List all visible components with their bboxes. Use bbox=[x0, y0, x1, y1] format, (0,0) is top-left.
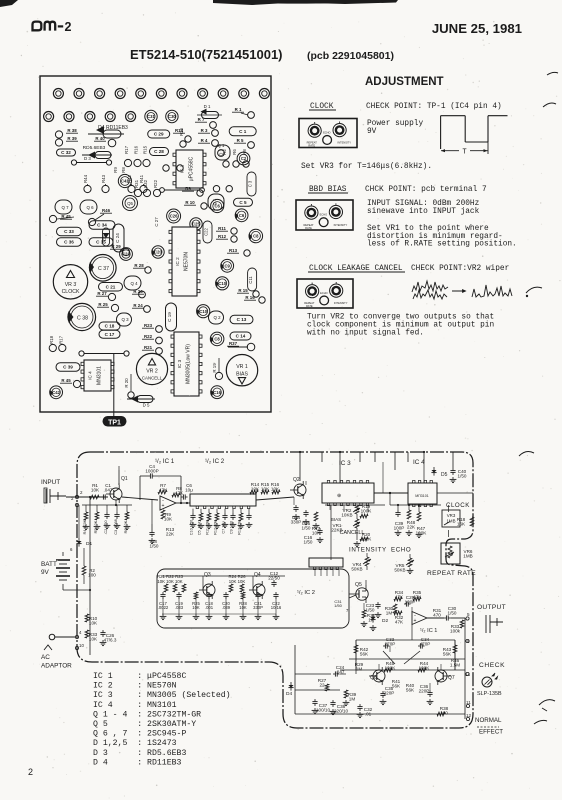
svg-text:sinewave into INPUT jack: sinewave into INPUT jack bbox=[367, 208, 480, 216]
svg-text:16K: 16K bbox=[457, 522, 466, 527]
svg-text:56K: 56K bbox=[443, 652, 452, 657]
svg-text:R 25: R 25 bbox=[98, 302, 108, 307]
capacitor C35 (pcb) bbox=[89, 238, 113, 247]
svg-text:less of R.RATE setting positio: less of R.RATE setting position. bbox=[367, 241, 517, 249]
wire opamp to output pin 5 bbox=[427, 617, 444, 619]
svg-text:RD5.6EB3: RD5.6EB3 bbox=[83, 145, 106, 151]
svg-text:R 24: R 24 bbox=[133, 303, 143, 308]
svg-text:CLOCK: CLOCK bbox=[62, 289, 80, 295]
capacitor C3 pill (pcb) bbox=[247, 172, 256, 196]
svg-text:C 38: C 38 bbox=[77, 316, 88, 322]
svg-text:R18: R18 bbox=[49, 335, 54, 344]
svg-text:+: + bbox=[414, 618, 417, 624]
capacitor C21 oval (pcb) bbox=[99, 282, 123, 291]
vertical feeds from top border bbox=[299, 452, 301, 462]
svg-text:C20: C20 bbox=[154, 250, 162, 255]
svg-text:C2: C2 bbox=[241, 156, 247, 161]
svg-text:IC 3: IC 3 bbox=[339, 460, 351, 467]
wire main path left bbox=[115, 500, 117, 505]
IC2 NE570N (pcb) bbox=[172, 227, 197, 296]
svg-text:IC 4: IC 4 bbox=[413, 459, 425, 466]
svg-text:Q 5 : 2SK30ATM-Y: Q 5 : 2SK30ATM-Y bbox=[93, 720, 196, 729]
resistor R4 string bbox=[85, 505, 87, 512]
svg-text:Q 6: Q 6 bbox=[86, 205, 94, 210]
svg-text:Q 4: Q 4 bbox=[130, 281, 138, 286]
svg-text:10KB: 10KB bbox=[341, 513, 352, 518]
schematic board outline bbox=[77, 452, 473, 728]
capacitor C9 bbox=[232, 509, 234, 513]
capacitor C22 pill (pcb) bbox=[203, 221, 212, 243]
wire input to Q1 bbox=[66, 496, 108, 498]
svg-text:JUNE 25, 1981: JUNE 25, 1981 bbox=[432, 21, 522, 36]
svg-text:C23: C23 bbox=[122, 252, 130, 257]
svg-text:R46: R46 bbox=[102, 208, 111, 213]
svg-text:CLOCK: CLOCK bbox=[446, 502, 470, 509]
PCB layout border bbox=[40, 76, 271, 412]
svg-text:REPEAT RATE: REPEAT RATE bbox=[427, 570, 476, 577]
svg-text:BATT: BATT bbox=[41, 561, 57, 568]
svg-text:C26: C26 bbox=[170, 214, 178, 219]
svg-text:ECHO: ECHO bbox=[320, 213, 328, 217]
svg-text:ADJUSTMENT: ADJUSTMENT bbox=[365, 76, 444, 88]
svg-text:D 3: D 3 bbox=[84, 156, 91, 161]
capacitor C30 (pcb) bbox=[166, 110, 178, 122]
svg-text:C10: C10 bbox=[218, 281, 226, 286]
capacitor C43 string bbox=[248, 509, 250, 513]
wires clock section bbox=[397, 505, 399, 510]
svg-text:1/50: 1/50 bbox=[366, 608, 375, 613]
IC3 MN3005 (pcb) bbox=[174, 332, 199, 396]
big capacitor C38 (pcb) bbox=[68, 303, 95, 330]
svg-text:Set VR1 to the point where: Set VR1 to the point where bbox=[367, 225, 489, 233]
svg-text:Q 6 , 7 : 2SC945-P: Q 6 , 7 : 2SC945-P bbox=[93, 730, 186, 739]
svg-text:R 3: R 3 bbox=[201, 128, 208, 133]
svg-text:10K: 10K bbox=[91, 488, 100, 493]
op-amp 1/2 IC1a bbox=[160, 496, 176, 510]
transistor Q7 (pcb) bbox=[55, 200, 72, 214]
svg-text:R37: R37 bbox=[229, 341, 238, 346]
svg-text:ECHO: ECHO bbox=[323, 131, 331, 135]
svg-text:R17: R17 bbox=[58, 335, 63, 344]
svg-text:INPUT SIGNAL: 0dBm 200Hz: INPUT SIGNAL: 0dBm 200Hz bbox=[367, 200, 480, 208]
resistor R38 (pcb) bbox=[55, 131, 62, 138]
svg-text:470P: 470P bbox=[420, 642, 431, 647]
svg-text:C 29: C 29 bbox=[154, 132, 164, 137]
svg-text:C16: C16 bbox=[213, 390, 221, 395]
svg-text:C 32: C 32 bbox=[61, 150, 71, 155]
svg-text:D4: D4 bbox=[286, 691, 292, 697]
diode D3 body (pcb) bbox=[88, 152, 95, 159]
svg-text:C6: C6 bbox=[239, 213, 245, 218]
svg-text:R43: R43 bbox=[101, 174, 106, 183]
wire Q1 to opamp bbox=[118, 478, 120, 485]
svg-text:10/16: 10/16 bbox=[271, 605, 282, 610]
svg-text:R 7: R 7 bbox=[198, 117, 205, 122]
svg-text:C 27: C 27 bbox=[154, 217, 159, 227]
svg-text:C 21: C 21 bbox=[106, 284, 116, 289]
resistor R46 (pcb) bbox=[88, 218, 95, 225]
svg-text:¹/₂ IC 1: ¹/₂ IC 1 bbox=[420, 628, 437, 634]
wires q5 section bbox=[365, 580, 367, 585]
trimmer VR3 CLOCK (pcb) bbox=[53, 265, 87, 299]
svg-text:BIAS: BIAS bbox=[236, 372, 248, 378]
svg-text:C9: C9 bbox=[225, 263, 231, 268]
svg-text:D 4 : RD11EB3: D 4 : RD11EB3 bbox=[93, 758, 182, 767]
svg-text:Power supply: Power supply bbox=[367, 120, 423, 128]
svg-text:C6: C6 bbox=[215, 204, 221, 209]
svg-text:10K 10K 10K: 10K 10K 10K bbox=[157, 579, 182, 584]
svg-text:R 40: R 40 bbox=[95, 136, 105, 141]
svg-text:C31: C31 bbox=[147, 114, 155, 119]
svg-text:ECHO: ECHO bbox=[320, 291, 328, 295]
trimmer VR1 BIAS (pcb) bbox=[226, 355, 257, 386]
svg-text:Q 1: Q 1 bbox=[218, 143, 225, 148]
svg-text:10K: 10K bbox=[89, 621, 98, 626]
svg-text:22K: 22K bbox=[407, 525, 416, 530]
svg-text:10μ: 10μ bbox=[185, 488, 193, 493]
capacitor C13 oval (pcb) bbox=[230, 315, 253, 324]
transistor Q6 (pcb) bbox=[80, 200, 97, 214]
svg-text:clock component is minimum at: clock component is minimum at output pin bbox=[307, 322, 494, 330]
svg-text:C 1: C 1 bbox=[239, 129, 247, 134]
wires to echo section bbox=[411, 607, 413, 612]
svg-text:R 1: R 1 bbox=[235, 107, 242, 112]
resistor R12 bbox=[216, 509, 218, 513]
svg-text:.033: .033 bbox=[175, 605, 184, 610]
svg-text:C25: C25 bbox=[192, 222, 200, 227]
jumper wire 3 (pcb) bbox=[79, 351, 84, 356]
resistor R45 (pcb) bbox=[49, 215, 56, 222]
wire Q1 collector fed bbox=[118, 466, 120, 470]
svg-text:Set VR3 for T=146μs(6.8kHz).: Set VR3 for T=146μs(6.8kHz). bbox=[301, 163, 432, 171]
resistor R13 bbox=[240, 509, 242, 513]
svg-text:Q4: Q4 bbox=[254, 572, 261, 578]
svg-text:R9: R9 bbox=[113, 167, 118, 173]
IC3 chip bbox=[322, 483, 374, 503]
square wave clock waveform bbox=[441, 115, 466, 117]
svg-text:C 39: C 39 bbox=[63, 365, 73, 370]
svg-text:VR 3: VR 3 bbox=[65, 282, 77, 288]
svg-text:CHECK POINT:VR2 wiper: CHECK POINT:VR2 wiper bbox=[411, 265, 509, 273]
capacitor C20 ring (pcb) bbox=[167, 209, 181, 223]
svg-text:Turn VR2 to converge two outpu: Turn VR2 to converge two outputs so that bbox=[307, 314, 494, 322]
svg-text:¹/₂ IC 1: ¹/₂ IC 1 bbox=[155, 458, 175, 465]
svg-text:470: 470 bbox=[433, 613, 441, 618]
svg-text:R23: R23 bbox=[144, 323, 153, 328]
svg-text:R11: R11 bbox=[218, 226, 226, 231]
svg-text:D2: D2 bbox=[382, 618, 388, 624]
svg-text:R12: R12 bbox=[218, 234, 227, 239]
svg-text:D 1: D 1 bbox=[204, 104, 211, 109]
svg-text:⊕: ⊕ bbox=[337, 493, 341, 499]
upper mid wires bbox=[293, 497, 295, 505]
svg-text:100: 100 bbox=[88, 573, 96, 578]
IC1 uPC4558C (pcb) bbox=[176, 150, 203, 188]
svg-text:C 5: C 5 bbox=[239, 200, 247, 205]
svg-text:R21: R21 bbox=[144, 345, 153, 350]
svg-text:R22: R22 bbox=[144, 334, 153, 339]
diode D4 body (pcb) bbox=[96, 126, 104, 134]
resistor R6 string bbox=[126, 505, 128, 512]
scan artifact top-left corner bbox=[0, 0, 18, 7]
svg-text:1/50: 1/50 bbox=[448, 611, 457, 616]
trimmer VR2 CANCEL (pcb) bbox=[136, 353, 167, 384]
svg-text:56K: 56K bbox=[360, 652, 369, 657]
svg-text:22: 22 bbox=[319, 683, 325, 688]
cleaner waveform right bbox=[472, 285, 512, 297]
svg-text:IC 4: IC 4 bbox=[88, 371, 93, 380]
svg-text:47K: 47K bbox=[395, 620, 404, 625]
svg-text:INTENSITY: INTENSITY bbox=[349, 547, 387, 554]
svg-text:Q3: Q3 bbox=[204, 572, 211, 578]
resistor C5 bbox=[200, 509, 202, 513]
svg-text:D 3 : RD5.6EB3: D 3 : RD5.6EB3 bbox=[93, 749, 186, 758]
svg-text:R15: R15 bbox=[143, 145, 148, 154]
capacitor C12 ring (pcb) bbox=[210, 332, 224, 346]
arrow bbox=[452, 290, 464, 292]
svg-text:C42: C42 bbox=[52, 390, 60, 395]
svg-text:R 38: R 38 bbox=[67, 128, 77, 133]
scan artifacts right margin bbox=[547, 72, 558, 75]
transistor Q5 (pcb) bbox=[123, 196, 138, 211]
svg-text:1M: 1M bbox=[386, 611, 393, 616]
svg-text:1/50: 1/50 bbox=[334, 603, 343, 608]
capacitor C29 (pcb) bbox=[150, 148, 169, 156]
capacitor C6 ring (pcb) bbox=[235, 209, 248, 222]
svg-text:NE570N: NE570N bbox=[184, 252, 190, 271]
svg-text:Q 2: Q 2 bbox=[213, 315, 221, 320]
svg-text:270P: 270P bbox=[385, 642, 396, 647]
svg-text:R 15: R 15 bbox=[238, 288, 248, 293]
svg-text:C 37: C 37 bbox=[98, 266, 109, 272]
capacitor C42 ring (pcb) bbox=[50, 386, 63, 399]
svg-text:R 4: R 4 bbox=[201, 138, 208, 143]
svg-text:1/50: 1/50 bbox=[302, 526, 311, 531]
svg-text:R17: R17 bbox=[124, 145, 129, 154]
svg-text:IC 3 : MN3005 (Selected): IC 3 : MN3005 (Selected) bbox=[93, 690, 231, 700]
svg-text:1/50: 1/50 bbox=[458, 474, 467, 479]
transistor Q2 oval (pcb) bbox=[209, 311, 224, 324]
svg-text:D 5: D 5 bbox=[143, 403, 150, 408]
capacitor C17 oval (pcb) bbox=[99, 330, 120, 338]
svg-text:ET5214-510(7521451001): ET5214-510(7521451001) bbox=[130, 47, 283, 62]
svg-text:IC 1 : μPC4558C: IC 1 : μPC4558C bbox=[93, 672, 186, 681]
logo DM-2 bbox=[33, 22, 42, 31]
svg-text:VR3: VR3 bbox=[447, 513, 456, 518]
svg-text:C5 .0047: C5 .0047 bbox=[198, 520, 202, 535]
svg-text:RATE: RATE bbox=[306, 304, 313, 308]
svg-text:D5: D5 bbox=[441, 472, 448, 478]
op-amp 1/2 IC1b bbox=[412, 612, 427, 625]
svg-text:Q5: Q5 bbox=[127, 201, 133, 206]
jumper wire 2 (pcb) bbox=[160, 188, 165, 193]
wires intensity echo bbox=[366, 553, 368, 557]
IC2b pin wires bbox=[314, 570, 316, 576]
svg-text:ADAPTOR: ADAPTOR bbox=[41, 663, 72, 670]
LFO wires bbox=[162, 575, 256, 577]
test point TP1 wire bbox=[113, 354, 115, 416]
transistor Q4 oval (pcb) bbox=[124, 276, 141, 290]
IC2 block top half bbox=[190, 494, 256, 506]
svg-text:10: 10 bbox=[79, 643, 84, 648]
capacitor C8 ring (pcb) bbox=[249, 229, 263, 243]
svg-text:EFFECT: EFFECT bbox=[479, 729, 503, 736]
svg-text:R 10: R 10 bbox=[185, 200, 195, 205]
svg-text:R 45: R 45 bbox=[61, 378, 71, 383]
left power wires bbox=[89, 497, 91, 655]
svg-text:R 29: R 29 bbox=[111, 244, 121, 249]
svg-text:IC 2: IC 2 bbox=[175, 257, 180, 266]
svg-text:10K: 10K bbox=[89, 637, 98, 642]
svg-text:μPC4558C: μPC4558C bbox=[189, 156, 195, 181]
capacitor C9 ring (pcb) bbox=[221, 259, 234, 272]
svg-text:R 20: R 20 bbox=[124, 378, 129, 388]
svg-text:Q2: Q2 bbox=[293, 477, 300, 483]
svg-text:2: 2 bbox=[65, 20, 72, 34]
svg-text:R32: R32 bbox=[143, 179, 148, 188]
noisy waveform left bbox=[412, 281, 448, 292]
svg-text:R 19: R 19 bbox=[212, 363, 217, 373]
svg-text:.001: .001 bbox=[205, 605, 214, 610]
svg-text:1M: 1M bbox=[356, 667, 363, 672]
svg-text:AC: AC bbox=[41, 654, 50, 661]
left bias strings R4 R5 C2 C3 R6 bbox=[82, 504, 132, 506]
capacitor C2 string bbox=[106, 505, 108, 512]
svg-text:10K: 10K bbox=[164, 517, 173, 522]
echo wire net bbox=[355, 653, 357, 670]
svg-text:9V: 9V bbox=[367, 128, 377, 136]
crossing wires echo bbox=[349, 595, 356, 598]
svg-text:100K: 100K bbox=[361, 509, 373, 514]
svg-text:VR 1: VR 1 bbox=[236, 364, 248, 370]
resistor R39 (pcb) bbox=[55, 139, 62, 146]
svg-text:R 39: R 39 bbox=[67, 136, 77, 141]
capacitor C20 ring (pcb) bbox=[152, 246, 164, 258]
svg-text:Q5: Q5 bbox=[355, 582, 362, 588]
capacitor C14 oval (pcb) bbox=[230, 332, 251, 340]
svg-text:D 1,2,5 : 1S2473: D 1,2,5 : 1S2473 bbox=[93, 739, 177, 748]
transistor Q1b pad (pcb) bbox=[218, 150, 225, 157]
svg-text:1/50: 1/50 bbox=[150, 544, 159, 549]
svg-text:NORMAL: NORMAL bbox=[475, 717, 502, 724]
echo wires bbox=[383, 651, 395, 664]
svg-text:R8: R8 bbox=[121, 167, 126, 173]
svg-text:INTENSITY: INTENSITY bbox=[337, 141, 351, 145]
echo net wires bbox=[356, 639, 455, 641]
junction dots main path bbox=[186, 502, 188, 504]
svg-text:R 28: R 28 bbox=[134, 263, 144, 268]
svg-text:C 17: C 17 bbox=[105, 332, 115, 337]
PCB mounting pads row 1 bbox=[53, 89, 63, 99]
svg-text:MN3101: MN3101 bbox=[97, 366, 103, 385]
test point TP1 bbox=[103, 416, 127, 427]
svg-text:SLP-135B: SLP-135B bbox=[477, 691, 502, 697]
svg-text:CANCELL: CANCELL bbox=[340, 530, 365, 536]
svg-text:R 27: R 27 bbox=[97, 291, 107, 296]
svg-text:C30: C30 bbox=[168, 114, 176, 119]
capacitor C10 bbox=[192, 509, 194, 513]
stompbox icon 3 bbox=[297, 279, 353, 308]
capacitor C33 (pcb) bbox=[57, 227, 82, 236]
svg-text:¹/₂ IC 2: ¹/₂ IC 2 bbox=[297, 590, 315, 596]
capacitor C26 ring (pcb) bbox=[211, 199, 224, 212]
resistor R11 bbox=[208, 509, 210, 513]
IC2 block bottom half bbox=[309, 558, 343, 567]
svg-text:CHECK: CHECK bbox=[479, 662, 505, 669]
capacitor C34 (pcb) bbox=[89, 221, 115, 230]
svg-text:R44: R44 bbox=[83, 174, 88, 183]
svg-text:330P: 330P bbox=[291, 520, 302, 525]
svg-text:RATE: RATE bbox=[308, 144, 315, 148]
big capacitor C37 (pcb) bbox=[90, 254, 117, 281]
svg-text:9V: 9V bbox=[41, 569, 50, 576]
svg-text:C 14: C 14 bbox=[236, 334, 246, 339]
capacitor C16 ring (pcb) bbox=[211, 386, 224, 399]
svg-text:22K: 22K bbox=[166, 532, 175, 537]
feedback wire from IC3 down to echo bbox=[330, 540, 332, 570]
svg-text:TP1: TP1 bbox=[108, 419, 121, 426]
svg-text:50KB: 50KB bbox=[394, 568, 405, 573]
capacitor C36 (pcb) bbox=[57, 238, 82, 247]
svg-text:1MB: 1MB bbox=[463, 554, 472, 559]
svg-text:RATE: RATE bbox=[305, 226, 312, 230]
wire IC3 to IC4 bbox=[374, 492, 408, 494]
svg-text:INTENSITY: INTENSITY bbox=[334, 223, 348, 227]
IC4 chip bbox=[408, 483, 437, 504]
svg-text:OUTPUT: OUTPUT bbox=[477, 604, 506, 611]
trimmer VR3 bbox=[442, 510, 460, 527]
svg-text:R22: R22 bbox=[153, 179, 158, 188]
capacitor C41 (pcb) bbox=[118, 174, 131, 187]
capacitor C19 pill (pcb) bbox=[166, 303, 177, 331]
svg-text:5: 5 bbox=[467, 612, 470, 617]
svg-text:50KB: 50KB bbox=[351, 567, 362, 572]
svg-text:CHCK POINT: pcb terminal 7: CHCK POINT: pcb terminal 7 bbox=[365, 186, 487, 194]
stompbox icon 1 bbox=[299, 119, 357, 148]
svg-text:1M: 1M bbox=[349, 697, 356, 702]
svg-text:VR 2: VR 2 bbox=[146, 369, 158, 375]
svg-text:BIAS: BIAS bbox=[331, 517, 341, 522]
transistor Q1 body (pcb) bbox=[208, 194, 224, 210]
jumper wire (pcb) bbox=[71, 160, 76, 165]
svg-text:with no input signal fed.: with no input signal fed. bbox=[307, 330, 424, 338]
svg-text:ΜΠ3101: ΜΠ3101 bbox=[415, 494, 429, 498]
svg-text:R14: R14 bbox=[175, 128, 184, 133]
svg-text:C8: C8 bbox=[253, 234, 259, 239]
svg-text:R 5: R 5 bbox=[237, 138, 244, 143]
transistor Q3 oval (pcb) bbox=[117, 313, 132, 326]
svg-text:C 3: C 3 bbox=[248, 180, 253, 187]
svg-text:INPUT: INPUT bbox=[41, 479, 60, 486]
capacitor C7 bbox=[224, 509, 226, 513]
svg-text:MN3005(Low VR): MN3005(Low VR) bbox=[186, 344, 192, 384]
svg-text:¹/₂ IC 2: ¹/₂ IC 2 bbox=[205, 458, 225, 465]
svg-text:56K: 56K bbox=[392, 684, 401, 689]
wires vr section bbox=[330, 505, 332, 540]
capacitor C3 string bbox=[116, 505, 118, 512]
svg-text:C 24: C 24 bbox=[115, 233, 120, 243]
resistor R5 string bbox=[96, 505, 98, 512]
capacitor C11 pill (pcb) bbox=[248, 268, 257, 291]
capacitor C29 oval (pcb) bbox=[148, 130, 170, 138]
svg-text:(pcb 2291045801): (pcb 2291045801) bbox=[307, 50, 394, 62]
trimmer VR6 repeat rate bbox=[441, 543, 460, 564]
svg-text:CANCELL: CANCELL bbox=[142, 376, 163, 381]
svg-text:C 19: C 19 bbox=[167, 312, 172, 322]
svg-text:C 13: C 13 bbox=[237, 317, 247, 322]
svg-text:220P: 220P bbox=[384, 691, 395, 696]
svg-text:R13: R13 bbox=[229, 248, 238, 253]
